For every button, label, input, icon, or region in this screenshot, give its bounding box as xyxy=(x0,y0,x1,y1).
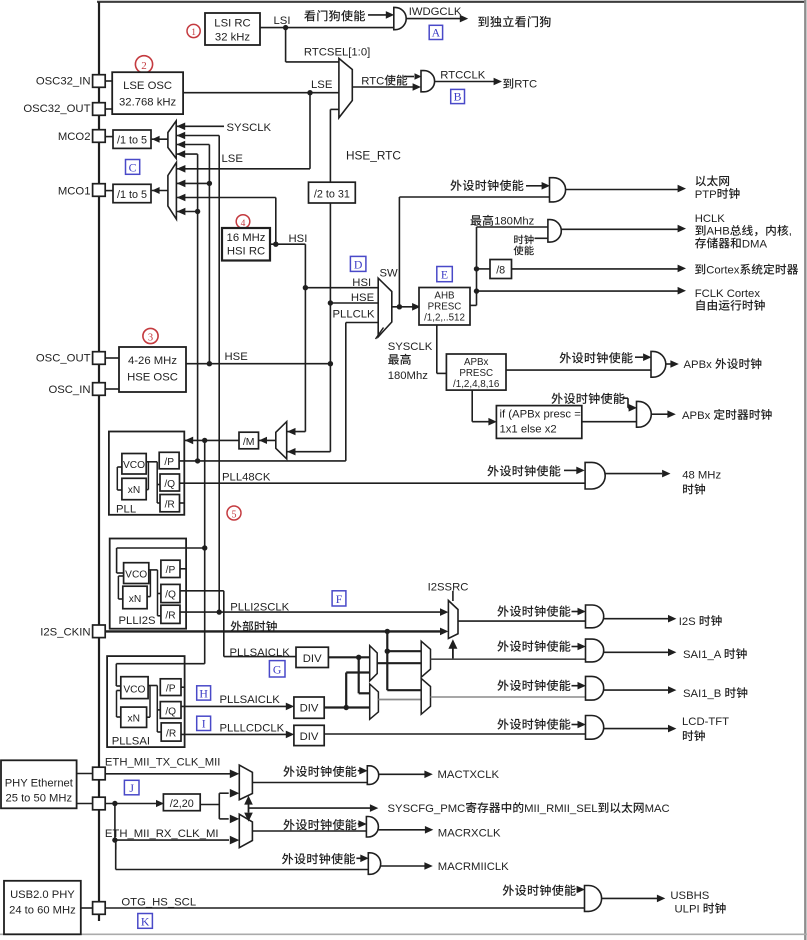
divider PLL /P xyxy=(159,452,179,469)
divider DIV PLLSAI-Q xyxy=(294,697,324,718)
label peripheral clock enable LCD-TFT xyxy=(497,718,570,729)
boxed letter C xyxy=(126,160,140,175)
svg-text:48 MHz: 48 MHz xyxy=(682,469,721,481)
mux SAI1A second stage xyxy=(421,641,430,677)
svg-text:LSE: LSE xyxy=(311,79,333,91)
svg-text:HCLK: HCLK xyxy=(695,213,726,225)
svg-text:RTC: RTC xyxy=(361,75,384,87)
divider DIV PLLSAI-R xyxy=(294,725,324,745)
label ethernet PTP clock xyxy=(696,175,729,186)
svg-text:/P: /P xyxy=(166,684,176,695)
wire PHY to TX pin xyxy=(77,773,93,775)
mux PLL source HSI/HSE xyxy=(276,422,287,459)
label watchdog enable xyxy=(304,10,365,21)
pin square I2S_CKIN xyxy=(93,625,106,638)
wire DIV2 output xyxy=(324,706,370,708)
svg-text:LSE: LSE xyxy=(222,153,244,165)
red circled number 1 xyxy=(187,24,200,37)
mux SAI1B second stage xyxy=(421,678,430,714)
pll PLLI2S divider bracket wire xyxy=(157,570,159,616)
svg-text:/1,2,4,8,16: /1,2,4,8,16 xyxy=(453,379,500,390)
pll PLL VCO-xN left bracket wire xyxy=(117,466,122,468)
svg-text:2: 2 xyxy=(141,60,147,72)
wire PTP enable arrow xyxy=(526,185,542,187)
wire I2S clock output xyxy=(604,618,668,620)
svg-text:MII_RMII_SEL: MII_RMII_SEL xyxy=(524,803,597,815)
pll PLLI2S xN xyxy=(123,586,147,609)
wire HSI into SW mux xyxy=(305,287,378,289)
and-gate IWDG xyxy=(394,7,406,29)
wire APBx timer enable jog xyxy=(623,397,629,399)
svg-text:32.768 kHz: 32.768 kHz xyxy=(119,97,176,109)
node HSE-SW junction xyxy=(328,300,333,305)
node LSI junction xyxy=(283,25,288,30)
svg-text:MACRMIICLK: MACRMIICLK xyxy=(438,861,509,873)
svg-text:HSE: HSE xyxy=(225,351,249,363)
pin square MCO2 xyxy=(93,130,106,143)
and-gate RTC xyxy=(421,71,435,92)
boxed letter G xyxy=(269,661,285,677)
svg-text:xN: xN xyxy=(127,714,139,725)
divider PLLI2S /R xyxy=(161,605,180,623)
wire I2S enable arrow xyxy=(572,611,581,613)
mux SAI1A first stage xyxy=(370,646,378,681)
divider PLL /Q xyxy=(160,474,180,491)
svg-text:xN: xN xyxy=(129,594,141,605)
pll PLLSAI xN xyxy=(121,707,147,727)
wire PLLSAI /R to DIV3 xyxy=(181,733,286,735)
svg-text:I2S: I2S xyxy=(679,616,696,628)
wire RTCCLK output xyxy=(435,81,494,83)
node HSE-MCO1 junction xyxy=(207,181,212,186)
wire PLLCLK from /P xyxy=(179,460,346,462)
wire HSE into SW mux xyxy=(330,302,378,304)
svg-text:/P: /P xyxy=(164,457,174,468)
wire LSI output to IWDG gate xyxy=(260,27,394,29)
svg-text:C: C xyxy=(129,160,137,174)
svg-text:/Q: /Q xyxy=(165,590,176,601)
svg-text:HSI: HSI xyxy=(352,277,371,289)
wire HSI output xyxy=(270,243,305,245)
node PLLCLK-MCO junction xyxy=(195,458,200,463)
pin square OTG_HS pin xyxy=(93,902,106,915)
node SYSCLK junction xyxy=(397,304,402,309)
divider PLLSAI /Q xyxy=(160,702,181,719)
svg-text:MACRXCLK: MACRXCLK xyxy=(438,827,501,839)
wire TX mux output xyxy=(252,782,367,784)
label peripheral clock enable MACRX xyxy=(283,819,356,830)
svg-text:SYSCLK: SYSCLK xyxy=(227,122,272,134)
svg-text:PRESC: PRESC xyxy=(428,301,462,312)
wire MACRMIICLK output xyxy=(381,865,425,867)
wire RTCSEL mux output xyxy=(352,86,413,88)
svg-text:OSC32_IN: OSC32_IN xyxy=(36,76,91,88)
pll PLLSAI divider bracket wire xyxy=(156,686,158,733)
svg-text:RTC: RTC xyxy=(514,79,537,91)
svg-text:xN: xN xyxy=(128,485,140,496)
svg-text:APBx: APBx xyxy=(464,357,489,368)
svg-text:HSE OSC: HSE OSC xyxy=(127,372,178,384)
and-gate MACTXCLK xyxy=(367,766,378,785)
svg-text:/1 to 5: /1 to 5 xyxy=(117,189,147,201)
figure bottom border xyxy=(0,933,807,935)
prescaler APBx PRESC /1,2,4,8,16 xyxy=(446,354,506,390)
block USB2.0 PHY 24 to 60 MHz xyxy=(4,881,81,935)
svg-text:MAC: MAC xyxy=(645,803,670,815)
wire L1 mux output xyxy=(377,662,421,664)
svg-text:ULPI: ULPI xyxy=(675,904,700,916)
svg-text:5: 5 xyxy=(232,510,237,521)
node external clock junction xyxy=(385,629,390,634)
wire /8 output to Cortex system timer xyxy=(512,268,679,270)
svg-text:USBHS: USBHS xyxy=(670,890,709,902)
svg-text:Cortex: Cortex xyxy=(706,265,740,277)
svg-text:180Mhz: 180Mhz xyxy=(494,216,535,228)
wire PLL source mux output to /M xyxy=(259,439,276,441)
wire LSE output to RTCSEL mux xyxy=(183,92,339,94)
wire MCO2 mux output xyxy=(152,138,168,140)
node HSE-MCO2 branch junction xyxy=(207,361,212,366)
svg-text:HSE_RTC: HSE_RTC xyxy=(346,148,401,162)
svg-text:PLL48CK: PLL48CK xyxy=(222,472,271,484)
svg-text:ETH_MII_TX_CLK_MII: ETH_MII_TX_CLK_MII xyxy=(105,757,221,769)
wire PLLSAI input xyxy=(116,663,204,665)
label peripheral clock enable USBHS xyxy=(503,885,576,896)
wire PLL feed vertical to PLLI2S and PLLSAI xyxy=(204,440,206,663)
divider PLL /R xyxy=(160,495,180,512)
pll block PLLI2S outer box xyxy=(110,539,186,629)
wire OSC32_IN pin to LSE OSC xyxy=(105,80,112,82)
oscillator 4-26 MHz HSE OSC xyxy=(119,347,186,392)
pll PLLI2S /P stub xyxy=(180,568,186,570)
and-gate HCLK xyxy=(548,220,561,243)
svg-text:K: K xyxy=(141,914,150,928)
wire MII select arrows between muxes xyxy=(244,796,253,805)
label peripheral clock enable SAI1_B xyxy=(497,680,570,691)
svg-text:HSE: HSE xyxy=(351,292,375,304)
wire LCD-TFT enable arrow xyxy=(572,724,581,726)
label peripheral clock enable 48MHz xyxy=(487,465,560,476)
wire USBHS output xyxy=(602,897,657,899)
boxed letter F xyxy=(332,591,346,606)
wire MCO1 pin to divider xyxy=(105,190,113,192)
svg-text:SYSCFG_PMC: SYSCFG_PMC xyxy=(388,803,466,815)
wire HSE line into MCO2 mux xyxy=(176,144,209,146)
wire MACRXCLK output xyxy=(379,829,425,831)
node HSI junction at box output xyxy=(273,242,278,247)
pll block PLL outer box xyxy=(109,432,184,515)
wire PLLI2S vertical line x219 xyxy=(218,136,220,613)
boxed letter I xyxy=(197,716,211,730)
wire MII_RMII_SEL annotation xyxy=(249,807,371,809)
pll PLL VCO-xN right feedback wire xyxy=(146,461,157,463)
node LSE junction xyxy=(307,90,312,95)
wire LSI branch down to RTCSEL mux xyxy=(285,28,287,62)
svg-text:/1,2,..512: /1,2,..512 xyxy=(424,313,465,324)
svg-text:LSE OSC: LSE OSC xyxy=(123,80,172,92)
wire OSC_OUT pin to HSE OSC xyxy=(105,357,119,359)
wire USB PHY to pin xyxy=(81,907,93,909)
svg-text:1: 1 xyxy=(191,28,196,38)
node PLLI2S feed junction xyxy=(202,545,207,550)
and-gate I2S xyxy=(586,605,604,628)
svg-text:APBx: APBx xyxy=(684,359,713,371)
pin square MCO1 xyxy=(93,184,106,197)
svg-text:PLL: PLL xyxy=(116,504,136,516)
wire FCLK Cortex output xyxy=(477,290,679,292)
and-gate SAI1_A xyxy=(586,639,604,662)
svg-text:,: , xyxy=(789,226,792,238)
wire HSE into MCO1 mux xyxy=(176,182,209,184)
wire DIV1 branch down to SAI1B mux xyxy=(358,657,360,693)
label external clock xyxy=(231,621,277,632)
divider /8 xyxy=(490,260,512,279)
svg-text:/Q: /Q xyxy=(164,479,175,490)
wire HSE_RTC riser into RTCSEL mux xyxy=(330,108,339,110)
wire PLLI2S line into MCO2 mux xyxy=(176,135,219,137)
svg-text:PLLSAICLK: PLLSAICLK xyxy=(230,647,291,659)
pin square ETH_MII_TX_CLK pin xyxy=(93,767,106,780)
red circled number 2 xyxy=(135,56,152,73)
svg-text:/M: /M xyxy=(243,436,255,448)
node HSE wire junction xyxy=(328,361,333,366)
svg-text:DIV: DIV xyxy=(300,703,319,715)
wire DIV1 output xyxy=(328,656,369,658)
label peripheral clock enable SAI1_A xyxy=(497,640,570,651)
wire PLLSAI /Q to DIV2 xyxy=(181,705,286,707)
red circled number 3 xyxy=(143,328,158,343)
oscillator 16 MHz HSI RC xyxy=(222,228,270,261)
pll PLL /R stub xyxy=(180,502,185,504)
svg-text:3: 3 xyxy=(148,333,153,344)
svg-text:HSI: HSI xyxy=(289,233,308,245)
mux MCO1 xyxy=(168,162,177,219)
wire PHY to RX pin xyxy=(77,803,93,805)
svg-text:PRESC: PRESC xyxy=(459,368,493,379)
wire /M output into PLL xyxy=(116,439,239,441)
svg-text:J: J xyxy=(129,781,134,795)
svg-text:PTP: PTP xyxy=(695,189,717,201)
node PLL feed junction xyxy=(202,438,207,443)
wire SYSCLK output of SW mux xyxy=(392,306,413,308)
and-gate SAI1_B xyxy=(586,676,604,700)
wire PLL into MCO1 mux xyxy=(176,211,197,213)
svg-text:SAI1_B: SAI1_B xyxy=(683,688,721,700)
wire OSC32_OUT pin to LSE OSC xyxy=(105,108,112,110)
svg-text:I2S_CKIN: I2S_CKIN xyxy=(40,627,90,639)
svg-text:FCLK Cortex: FCLK Cortex xyxy=(695,288,761,300)
svg-text:VCO: VCO xyxy=(123,684,145,695)
wire IWDGCLK output xyxy=(407,18,461,20)
wire SYSCLK down to APBx PRESC xyxy=(436,325,438,374)
pin square OSC32_IN xyxy=(93,75,106,88)
svg-text:MCO1: MCO1 xyxy=(58,186,91,198)
wire external clock into SAI muxes xyxy=(386,631,388,651)
wire RX pin to /2,20 xyxy=(105,803,156,805)
wire HSE vertical x330 xyxy=(329,203,331,452)
wire APBx PRESC output xyxy=(506,369,651,371)
wire PLL line into MCO2 mux xyxy=(176,153,197,155)
wire RX mux output xyxy=(252,830,366,832)
svg-text:PLLCLK: PLLCLK xyxy=(333,309,376,321)
node /8 branch junction xyxy=(474,266,479,271)
svg-text:/P: /P xyxy=(166,565,176,576)
label peripheral clock enable APBx xyxy=(560,352,633,363)
svg-text:HSI RC: HSI RC xyxy=(227,246,265,258)
svg-text:RTCCLK: RTCCLK xyxy=(440,69,485,81)
wire MACTX enable arrow xyxy=(358,770,360,772)
pll PLLSAI VCO-xN right feedback wire xyxy=(148,685,157,687)
wire RTC enable arrow xyxy=(404,76,414,78)
svg-text:OSC32_OUT: OSC32_OUT xyxy=(23,103,90,115)
pll PLL VCO xyxy=(122,454,146,475)
svg-text:ETH_MII_RX_CLK_MI: ETH_MII_RX_CLK_MI xyxy=(105,828,219,840)
mux ETH RX xyxy=(239,814,252,848)
svg-text:VCO: VCO xyxy=(125,570,147,581)
svg-text:RTCSEL[1:0]: RTCSEL[1:0] xyxy=(304,46,370,58)
and-gate APBx timer xyxy=(637,401,652,427)
wire USBHS enable arrow xyxy=(577,889,578,891)
wire SAI1_A enable arrow xyxy=(572,646,581,648)
wire SYSCLK riser to ethernet PTP gate xyxy=(398,197,400,307)
divider /2,20 xyxy=(163,794,200,811)
svg-text:DMA: DMA xyxy=(742,238,768,250)
svg-text:PLLSAICLK: PLLSAICLK xyxy=(220,694,281,706)
boxed letter J xyxy=(124,780,139,795)
svg-text:SAI1_A: SAI1_A xyxy=(683,649,722,661)
wire I2S mux output to gate xyxy=(458,620,586,622)
svg-text:LSI: LSI xyxy=(274,15,291,27)
pll PLL divider bracket wire xyxy=(156,462,158,503)
svg-text:I: I xyxy=(202,717,206,731)
wire AHB PRESC output riser xyxy=(470,304,477,306)
label peripheral clock enable MACRMII xyxy=(282,853,355,864)
svg-text:AHB: AHB xyxy=(434,290,455,301)
svg-text:MCO2: MCO2 xyxy=(58,131,91,143)
svg-text:180Mhz: 180Mhz xyxy=(388,370,429,382)
and-gate 48MHz xyxy=(585,462,605,489)
divider PLLI2S /P xyxy=(161,560,180,577)
divider PLLSAI /R xyxy=(161,723,181,741)
wire L2 mux output xyxy=(378,699,421,701)
wire PLL input drop to VCO xyxy=(115,440,117,459)
boxed letter E xyxy=(437,267,453,282)
svg-text:/8: /8 xyxy=(496,265,505,277)
figure top border xyxy=(97,1,806,3)
and-gate APBx peripheral xyxy=(651,351,666,377)
pll PLLI2S VCO xyxy=(124,563,149,584)
wire PLLI2S input xyxy=(117,547,205,549)
wire MCO1 mux output xyxy=(152,190,168,192)
wire SYSCLK stub into MCO2 mux xyxy=(176,125,224,127)
wire OSC_IN pin to HSE OSC xyxy=(105,388,119,390)
svg-text:VCO: VCO xyxy=(123,460,145,471)
red circled number 5 xyxy=(227,506,241,520)
wire APBx PRESC down to if-box xyxy=(471,390,473,422)
svg-text:/R: /R xyxy=(166,728,176,739)
pin square OSC_OUT xyxy=(93,352,106,365)
divider /M xyxy=(239,432,259,449)
svg-text:PLLI2S: PLLI2S xyxy=(119,615,157,627)
conditional box if APBx presc xyxy=(496,406,581,439)
svg-text:if (APBx presc =: if (APBx presc = xyxy=(500,409,582,421)
pll PLLI2S VCO-xN left bracket wire xyxy=(118,575,123,577)
wire 48MHz output xyxy=(606,473,663,475)
svg-text:/2,20: /2,20 xyxy=(170,798,194,810)
wire MCO2 pin to divider xyxy=(105,136,113,138)
svg-text:PHY Ethernet: PHY Ethernet xyxy=(5,777,74,789)
pll PLLSAI VCO-xN left bracket wire xyxy=(117,690,121,692)
wire MACTXCLK output xyxy=(379,773,425,775)
wire MACRMII enable arrow xyxy=(356,857,360,859)
wire 48MHz enable arrow xyxy=(564,469,577,471)
wire RX drop to RX mux xyxy=(114,804,116,841)
wire HSE output xyxy=(186,363,330,365)
pin square OSC32_OUT xyxy=(93,103,106,116)
wire APBx timer clock output xyxy=(652,413,668,415)
svg-text:SYSCLK: SYSCLK xyxy=(388,341,433,353)
wire watchdog enable arrow xyxy=(368,14,387,16)
wire /2,20 output fork xyxy=(200,804,219,806)
wire HSE into PLL source mux xyxy=(287,451,331,453)
boxed letter D xyxy=(350,256,366,271)
wire external I2S_CKIN clock xyxy=(105,630,440,632)
mux ETH TX xyxy=(239,765,252,800)
wire LCD-TFT clock output xyxy=(604,728,668,730)
mux MCO2 xyxy=(168,121,176,159)
svg-text:APBx: APBx xyxy=(682,410,711,422)
pll block PLLSAI outer box xyxy=(107,656,185,747)
svg-text:OSC_IN: OSC_IN xyxy=(48,384,90,396)
label peripheral clock enable APBx timer xyxy=(551,393,624,404)
label peripheral clock enable PTP xyxy=(450,180,523,191)
prescaler AHB PRESC /1,2...512 xyxy=(419,288,470,326)
oscillator LSE OSC 32.768 kHz xyxy=(112,72,183,114)
wire DIV3 output to LCD gate xyxy=(324,733,585,735)
wire PLLCLK into SW mux xyxy=(346,322,378,324)
svg-text:H: H xyxy=(199,686,208,700)
wire DIV2 branch up to SAI1A mux xyxy=(346,671,370,673)
boxed letter A xyxy=(429,25,442,39)
svg-text:LCD-TFT: LCD-TFT xyxy=(682,716,729,728)
node DIV2 junction xyxy=(344,705,349,710)
svg-text:/R: /R xyxy=(165,611,175,622)
block PHY Ethernet 25 to 50 MHz xyxy=(1,760,77,808)
svg-text:4-26 MHz: 4-26 MHz xyxy=(128,355,177,367)
svg-text:16 MHz: 16 MHz xyxy=(227,232,266,244)
pll PLL xN xyxy=(122,478,146,499)
and-gate LCD-TFT xyxy=(586,716,604,740)
wire HCLK output xyxy=(562,228,679,230)
label clock enable two lines xyxy=(514,235,533,245)
wire I2S mux bottom arrow xyxy=(452,648,454,659)
node HSI-SW junction xyxy=(303,285,308,290)
svg-text:OTG_HS_SCL: OTG_HS_SCL xyxy=(121,897,196,909)
wire HSI into PLL source mux xyxy=(287,431,306,433)
node PLL-MCO1 junction xyxy=(195,209,200,214)
label to RTC xyxy=(503,78,513,88)
SYSCLK slash tick xyxy=(376,328,384,340)
svg-text:AHB: AHB xyxy=(707,226,730,238)
wire APBx peripheral clock output xyxy=(666,363,670,365)
pll PLLSAI VCO xyxy=(121,677,148,699)
divider /2 to 31 xyxy=(309,182,356,203)
svg-text:PLLSAI: PLLSAI xyxy=(112,736,150,748)
svg-text:USB2.0 PHY: USB2.0 PHY xyxy=(10,889,75,901)
wire HCLK top feed xyxy=(477,226,548,228)
wire HSI vertical down to SW mux and PLL source mux xyxy=(304,244,306,431)
wire PLL vertical line x197 xyxy=(197,154,199,461)
